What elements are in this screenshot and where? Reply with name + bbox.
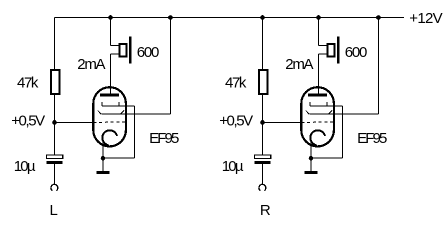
wire: 47k to grid node left	[54, 94, 56, 122]
wire: headphone to anode right	[319, 53, 328, 55]
svg-text:EF95: EF95	[357, 130, 387, 147]
junction cathode/g3 right	[309, 156, 314, 161]
tube right: screen grid g2	[309, 113, 328, 115]
svg-text:+12V: +12V	[409, 10, 442, 27]
capacitor 10u left (electrolytic)	[47, 155, 63, 158]
svg-text:+0,5V: +0,5V	[11, 113, 45, 130]
svg-text:L: L	[50, 202, 58, 219]
tube right: cathode	[310, 130, 325, 145]
wire: 47k to grid node right	[262, 94, 264, 122]
wire: cathode to ground left	[102, 140, 104, 172]
wire: rail to headphone right	[318, 18, 320, 46]
tube left: screen grid g2	[101, 113, 120, 115]
svg-text:600: 600	[137, 44, 160, 61]
svg-text:10µ: 10µ	[14, 158, 36, 175]
junction on rail (g2 left)	[168, 15, 173, 20]
junction on rail (47k R-channel)	[260, 15, 265, 20]
wire: g2 to +12V rail left	[121, 113, 171, 115]
tube right: suppressor grid g3	[310, 105, 343, 107]
junction on rail (headphone left)	[108, 15, 113, 20]
wire: rail to headphone left	[110, 18, 112, 46]
tube left: cathode	[102, 130, 117, 145]
svg-text:10µ: 10µ	[222, 158, 244, 175]
svg-text:47k: 47k	[225, 75, 247, 92]
junction on rail (g2 right)	[376, 15, 381, 20]
wire: cathode to ground right	[310, 140, 312, 172]
node +0,5V left	[52, 120, 57, 125]
ground right	[304, 171, 317, 174]
wire: grid node to capacitor left	[54, 122, 56, 155]
wire: capacitor to input terminal right	[262, 164, 264, 185]
wire: grid node to g1 right	[263, 121, 302, 123]
tube left: suppressor grid g3	[102, 105, 135, 107]
tube EF95 left: envelope	[93, 87, 126, 146]
junction on rail (headphone right)	[316, 15, 321, 20]
junction cathode/g3 left	[101, 156, 106, 161]
wire: g2 to +12V rail right	[329, 113, 379, 115]
wire: grid node to g1 left	[55, 121, 94, 123]
wire: +12V rail to 47k resistor right	[262, 18, 264, 69]
svg-text:47k: 47k	[17, 75, 39, 92]
tube EF95 right: envelope	[301, 87, 334, 146]
svg-text:2mA: 2mA	[77, 56, 105, 73]
wire: headphone to anode left	[111, 53, 120, 55]
svg-text:EF95: EF95	[149, 130, 179, 147]
svg-text:600: 600	[345, 44, 368, 61]
wire: g3 to cathode right	[341, 106, 343, 158]
node +0,5V right	[260, 120, 265, 125]
tube left: control grid g1 (dashed)	[94, 121, 127, 123]
wire: +12V rail to 47k resistor left	[54, 18, 56, 69]
svg-text:2mA: 2mA	[285, 56, 313, 73]
svg-text:+0,5V: +0,5V	[219, 113, 253, 130]
ground left	[96, 171, 109, 174]
input terminal left	[51, 184, 58, 190]
tube left: anode plate	[100, 94, 119, 97]
wire: g3 to cathode left	[133, 106, 135, 158]
+12V supply rail	[55, 17, 405, 19]
wire: capacitor to input terminal left	[54, 164, 56, 185]
svg-text:R: R	[260, 202, 271, 219]
resistor 47k right	[259, 70, 267, 94]
headphone speaker 600 ohm right	[328, 44, 335, 57]
tube right: control grid g1 (dashed)	[302, 121, 335, 123]
tube right: anode plate	[308, 94, 327, 97]
input terminal right	[259, 184, 266, 190]
headphone speaker 600 ohm left	[120, 44, 127, 57]
wire: grid node to capacitor right	[262, 122, 264, 155]
resistor 47k left	[51, 70, 59, 94]
capacitor 10u right (electrolytic)	[255, 155, 271, 158]
